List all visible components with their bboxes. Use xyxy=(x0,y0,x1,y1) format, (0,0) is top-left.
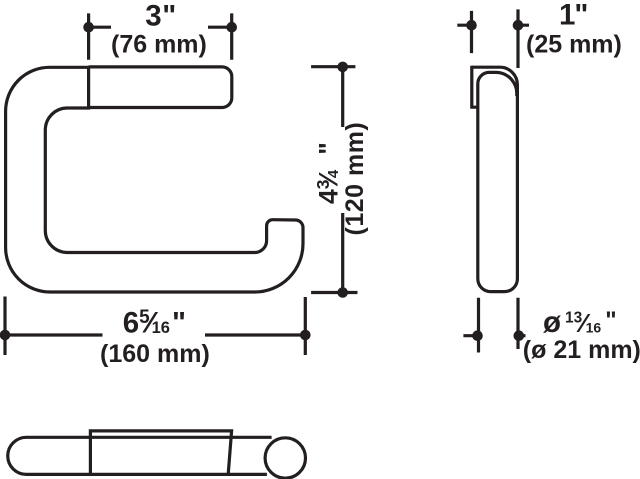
dim 3in arrow dots xyxy=(83,22,94,33)
top view roller sleeve xyxy=(90,431,231,475)
svg-text:43⁄4": 43⁄4" xyxy=(313,142,343,204)
dim 1in dimension line stubs xyxy=(457,24,529,27)
top view hook tip circle xyxy=(265,438,305,478)
side view tube xyxy=(472,67,518,291)
svg-text:1": 1" xyxy=(559,0,588,32)
dim 4-3/4in extension lines xyxy=(311,67,357,293)
svg-text:(25 mm): (25 mm) xyxy=(526,31,622,59)
dim 6-5/16in extension lines xyxy=(5,297,305,356)
front view tube outline xyxy=(6,67,303,292)
dim 4-3/4in arrow dots xyxy=(337,62,348,73)
dim 4-3/4in dimension line xyxy=(341,71,344,289)
top view tube body xyxy=(8,437,272,474)
svg-text:(160 mm): (160 mm) xyxy=(100,340,210,368)
svg-text:(76 mm): (76 mm) xyxy=(111,30,207,58)
svg-text:3": 3" xyxy=(145,0,176,32)
dim 3in dimension line xyxy=(89,26,232,29)
svg-text:65⁄16": 65⁄16" xyxy=(123,306,186,339)
dim dia arrow dots xyxy=(472,330,483,341)
dim dia dimension line stubs xyxy=(463,334,525,337)
dim 1in extension lines xyxy=(472,9,519,68)
svg-text:ø13⁄16": ø13⁄16" xyxy=(543,306,617,339)
side view wall tab xyxy=(472,66,478,108)
dim 6-5/16in dimension line xyxy=(5,333,305,336)
svg-text:(120 mm): (120 mm) xyxy=(341,122,369,236)
front view roller sleeve xyxy=(89,67,232,108)
dim dia extension lines xyxy=(479,298,519,353)
dim 1in arrow dots xyxy=(466,20,477,31)
dim 3in extension lines xyxy=(89,13,232,59)
svg-text:(ø 21 mm): (ø 21 mm) xyxy=(523,336,640,364)
dim 6-5/16in arrow dots xyxy=(0,330,10,341)
